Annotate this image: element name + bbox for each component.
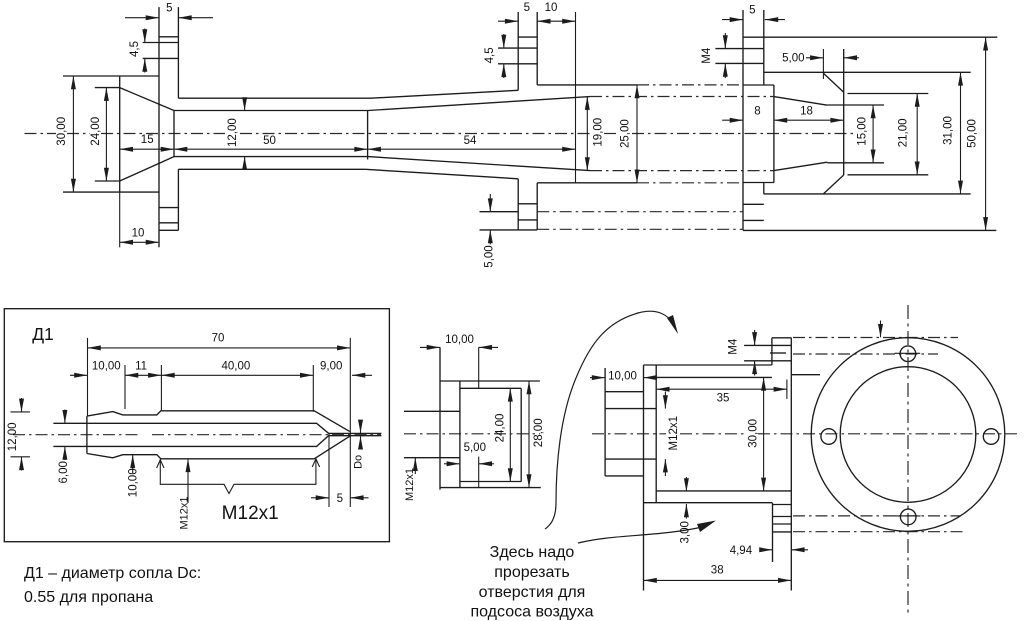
note text line3 xyxy=(479,584,586,601)
section flange disc xyxy=(644,365,773,591)
svg-text:M4: M4 xyxy=(728,338,740,355)
casing bore chamfer xyxy=(823,73,843,194)
cap centerline xyxy=(404,433,540,435)
svg-text:Dо: Dо xyxy=(353,455,365,469)
svg-text:18: 18 xyxy=(800,106,813,118)
flange F3 plate xyxy=(743,10,764,230)
mixer tube inside casing xyxy=(743,85,774,183)
svg-text:5,00: 5,00 xyxy=(464,442,486,454)
note text line1 xyxy=(490,544,575,561)
burner casing bore 31 xyxy=(764,72,971,194)
svg-text:19,00: 19,00 xyxy=(593,118,605,147)
dimension 18 cone length xyxy=(774,106,844,121)
svg-text:Д1 – диаметр сопла Dc:: Д1 – диаметр сопла Dc: xyxy=(24,565,201,582)
M4 stud centerline bottom to hole xyxy=(793,516,963,532)
bolt hole top xyxy=(895,346,921,362)
flange F1 bolt hole M4 bottom xyxy=(159,208,178,223)
venturi bell housing outline xyxy=(63,76,159,192)
svg-text:10,00: 10,00 xyxy=(92,360,121,372)
dimension 10 tube protrusion xyxy=(537,2,575,21)
svg-text:отверстия для: отверстия для xyxy=(479,584,586,601)
svg-text:21,00: 21,00 xyxy=(898,119,910,148)
section body 30 xyxy=(656,338,791,591)
dimension 31,00 casing bore xyxy=(943,72,961,194)
svg-text:M12x1: M12x1 xyxy=(222,503,279,524)
freehand arrow to mixer body xyxy=(545,311,678,529)
dimension 4,5 flange F1 hole xyxy=(129,29,145,73)
svg-text:0.55 для пропана: 0.55 для пропана xyxy=(24,589,153,606)
dimension 10,00 groove diameter xyxy=(127,455,139,497)
cap body 24 xyxy=(460,388,522,481)
svg-text:8: 8 xyxy=(754,106,760,118)
svg-text:подсоса воздуха: подсоса воздуха xyxy=(470,604,593,621)
dimension 35 body length xyxy=(656,380,787,405)
label D1 xyxy=(32,324,54,344)
dimension 10 bell length xyxy=(120,192,159,247)
dimension 38 overall width xyxy=(644,565,792,581)
svg-text:10: 10 xyxy=(132,228,145,240)
svg-text:35: 35 xyxy=(717,393,730,405)
venturi outer tube top xyxy=(178,90,518,98)
dimension 70 overall length xyxy=(88,333,351,508)
mixer tube 25 solid xyxy=(537,85,637,183)
svg-text:15: 15 xyxy=(141,134,154,146)
svg-text:Д1: Д1 xyxy=(32,324,54,344)
dimension 5 tip length xyxy=(311,433,369,507)
bolt hole right xyxy=(983,429,999,445)
svg-text:M12x1: M12x1 xyxy=(404,468,416,501)
nozzle body 21 xyxy=(848,94,929,175)
dimension 30,00 bell outer diameter xyxy=(56,76,73,192)
section threaded hole M12x1 xyxy=(605,409,656,460)
detail box D1 frame xyxy=(4,309,389,542)
svg-text:9,00: 9,00 xyxy=(320,360,342,372)
venturi throat bore 12 xyxy=(174,111,368,160)
venturi diffuser cone hidden xyxy=(590,97,774,171)
M4 stud boss top xyxy=(744,338,791,365)
svg-text:10: 10 xyxy=(545,2,558,14)
section neck xyxy=(605,368,643,476)
nozzle body outline top xyxy=(87,411,350,432)
svg-text:M4: M4 xyxy=(701,47,713,64)
dimension 5,00 stud offset xyxy=(483,194,495,268)
centerline of main assembly xyxy=(25,133,856,135)
svg-text:M12x1: M12x1 xyxy=(668,416,680,451)
svg-text:40,00: 40,00 xyxy=(222,360,251,372)
thread extent bracket M12x1 xyxy=(157,458,320,494)
svg-text:30,00: 30,00 xyxy=(748,419,760,448)
dimension M12x1 section xyxy=(665,392,680,477)
mixer tube 25 hidden xyxy=(637,85,743,183)
nozzle body outline bottom xyxy=(87,436,350,459)
section centerline xyxy=(592,433,1017,435)
M4 stud centerline bottom xyxy=(537,212,743,230)
dimension Dc orifice xyxy=(353,421,365,469)
svg-text:24,00: 24,00 xyxy=(90,117,102,146)
svg-text:50,00: 50,00 xyxy=(967,119,979,148)
svg-text:4,94: 4,94 xyxy=(730,545,753,557)
flange F3 bolt hole M4 top xyxy=(715,49,763,64)
svg-text:12,00: 12,00 xyxy=(7,423,19,452)
caption D1 line2 xyxy=(24,589,153,606)
svg-text:Здесь надо: Здесь надо xyxy=(490,544,575,561)
svg-text:5,00: 5,00 xyxy=(782,53,804,65)
svg-text:50: 50 xyxy=(263,135,276,147)
svg-text:4,5: 4,5 xyxy=(484,47,496,63)
note text line2 xyxy=(494,564,569,581)
nozzle outlet face xyxy=(843,49,845,175)
dimension 10,00 cap flange xyxy=(420,334,498,389)
nozzle centerline xyxy=(13,434,381,436)
venturi tube end extension line xyxy=(575,12,577,183)
dimension 5 flange F3 thickness xyxy=(722,5,785,20)
label M12x1 small with leader xyxy=(179,459,191,530)
svg-text:10,00: 10,00 xyxy=(608,371,637,383)
svg-text:5: 5 xyxy=(166,3,172,15)
note text line4 xyxy=(470,604,593,621)
dimension 50,00 casing outer xyxy=(967,37,986,230)
freehand leader from note xyxy=(578,521,716,544)
dimension 4,5 flange F2 hole xyxy=(484,34,504,78)
svg-text:М12х1: М12х1 xyxy=(179,496,191,529)
svg-text:54: 54 xyxy=(464,135,477,147)
dimension line 15 50 54 xyxy=(120,134,576,149)
svg-text:5: 5 xyxy=(524,2,530,14)
dimension 25,00 mixer tube xyxy=(620,85,637,183)
label M12x1 large xyxy=(222,503,279,524)
dimension 21,00 nozzle body xyxy=(898,94,918,175)
flange F1 plate xyxy=(159,7,178,247)
M4 boss bottom xyxy=(773,503,792,562)
dimension 10,00 section neck xyxy=(590,371,656,383)
dimension 4,94 boss width xyxy=(730,545,808,557)
dimension 5,00 chamfer xyxy=(782,49,859,79)
dimension 30,00 body diameter xyxy=(748,377,764,491)
dimension M4 flange hole xyxy=(701,33,726,78)
svg-text:25,00: 25,00 xyxy=(620,119,632,148)
svg-text:15,00: 15,00 xyxy=(856,117,868,146)
svg-text:38: 38 xyxy=(711,565,724,577)
svg-text:30,00: 30,00 xyxy=(56,117,68,146)
svg-text:24,00: 24,00 xyxy=(495,414,507,443)
nozzle left face xyxy=(86,416,88,453)
dimension 12,00 nozzle diameter xyxy=(7,398,30,471)
dimension 5 flange F2 thickness xyxy=(498,2,530,21)
bolt hole bottom xyxy=(895,509,921,525)
svg-text:10,00: 10,00 xyxy=(445,334,474,346)
bolt hole left xyxy=(821,429,837,445)
dimension 5 flange F1 thickness xyxy=(125,3,213,18)
dimension 8 flange to step xyxy=(722,106,760,121)
dimension M4 section xyxy=(728,330,755,376)
dimension 5,00 cap wall xyxy=(444,442,494,488)
front view vertical centerline xyxy=(907,305,909,613)
dimension row 10,00 11 40,00 9,00 xyxy=(70,360,372,412)
svg-text:4,5: 4,5 xyxy=(129,41,141,57)
flange F1 bolt hole M4 top xyxy=(143,43,179,59)
venturi bell inlet cone xyxy=(95,88,174,181)
svg-text:прорезать: прорезать xyxy=(494,564,569,581)
svg-text:5: 5 xyxy=(337,493,343,505)
nozzle outlet bore 15 xyxy=(827,105,884,163)
svg-text:70: 70 xyxy=(212,333,225,345)
caption D1 line1 xyxy=(24,565,201,582)
dimension 24,00 cap body xyxy=(495,388,511,481)
dimension 28,00 cap flange dia xyxy=(529,381,545,488)
svg-text:31,00: 31,00 xyxy=(943,116,955,145)
nozzle bore 6 xyxy=(53,423,329,446)
flange F3 bolt hole M4 bottom xyxy=(743,204,764,220)
dimension 19,00 diffuser exit xyxy=(587,97,604,171)
svg-text:3,00: 3,00 xyxy=(679,521,691,543)
stray arrow at casing top xyxy=(880,321,882,338)
venturi diffuser cone solid xyxy=(368,97,590,171)
cap threaded hole M12 xyxy=(404,411,460,457)
M4 stud centerline to hole xyxy=(792,338,958,375)
dimension 15,00 outlet xyxy=(856,105,873,163)
dimension 3,00 flange lip xyxy=(679,477,691,543)
flange front view inner circle xyxy=(840,367,976,503)
svg-text:28,00: 28,00 xyxy=(533,418,545,447)
burner casing outer 50 xyxy=(743,37,997,230)
svg-text:6,00: 6,00 xyxy=(58,461,70,483)
venturi outer tube bottom xyxy=(178,169,518,179)
flange F2 plate xyxy=(480,12,538,230)
nozzle converging cone xyxy=(774,97,827,171)
flange F2 bolt hole M4 top xyxy=(498,48,537,64)
dimension 12,00 throat diameter xyxy=(227,99,245,169)
cap flange disc 28 xyxy=(440,347,541,489)
svg-text:5: 5 xyxy=(749,5,755,17)
flange front view outer circle xyxy=(811,338,1005,532)
svg-text:10,00: 10,00 xyxy=(127,468,139,497)
nozzle orifice Dc xyxy=(329,433,381,435)
svg-text:5,00: 5,00 xyxy=(483,245,495,267)
svg-text:12,00: 12,00 xyxy=(227,118,239,147)
dimension 24,00 bell mouth diameter xyxy=(90,88,106,181)
label M12x1 cap with leader xyxy=(404,458,416,501)
dimension 6,00 bore xyxy=(58,410,70,484)
flange F2 bolt hole M4 bottom xyxy=(480,204,538,220)
svg-text:11: 11 xyxy=(135,360,147,372)
